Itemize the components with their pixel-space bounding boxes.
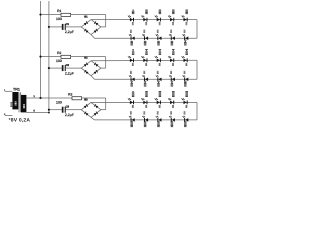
LED5 [182, 10, 188, 26]
pin number 1 of primary [4, 89, 6, 92]
wire TR1 secondary top pin to bus N1 (R3 net) [26, 97, 40, 99]
wire right edge joining LED rows 5 and 6 [196, 102, 198, 120]
LED29 [169, 111, 175, 127]
junction at bus N2 bottom corner [48, 112, 50, 114]
wire right edge joining LED rows 3 and 4 [196, 60, 198, 79]
svg-text:100: 100 [56, 101, 62, 105]
svg-text:R3: R3 [68, 92, 72, 96]
LED10 [183, 30, 189, 46]
resistor R3 [72, 97, 82, 100]
junction on bus N1 at R1 [39, 14, 41, 16]
label R3 [68, 92, 72, 96]
resistor R2 [61, 55, 71, 58]
LED17 [142, 71, 148, 87]
wire bridge B2 + output to LED row 3 [91, 59, 197, 62]
pin number 1 [33, 95, 35, 98]
svg-text:C1: C1 [66, 23, 70, 26]
capacitor C2 [62, 65, 66, 71]
wire vertical bus net N1 (to resistors) [40, 1, 42, 98]
svg-text:R1: R1 [57, 9, 61, 13]
LED2 [141, 10, 147, 26]
label C3 [66, 106, 70, 109]
wire bridge B3 + output to LED row 5 [91, 101, 197, 103]
label B2 [84, 57, 88, 60]
wire to bridge B3 AC right [101, 109, 106, 111]
svg-text:R2: R2 [57, 51, 61, 55]
label 230V on TR1 primary [10, 102, 12, 107]
pin number 4 of primary [4, 113, 6, 116]
wire bus N2 to capacitor C1 [49, 26, 63, 28]
svg-text:B3: B3 [84, 98, 88, 101]
capacitor C1 [62, 24, 66, 30]
LED9 [169, 30, 175, 46]
junction on bus N1 at R3 and TR1 pin [39, 97, 41, 99]
wire to bridge B2 AC right [101, 67, 106, 69]
value 2,2uF of C1 [65, 30, 74, 34]
LED25 [182, 91, 188, 108]
pin stub TR1 primary top [5, 90, 12, 92]
LED8 [156, 30, 162, 46]
wire vertical down to bridge B3 right vertex [105, 98, 107, 110]
junction on bus N1 at R2 [39, 56, 41, 58]
bridge rectifier B3 [81, 102, 101, 117]
LED1 [128, 10, 134, 26]
svg-text:2,2µF: 2,2µF [65, 30, 74, 34]
LED27 [142, 111, 148, 127]
resistor R1 [61, 13, 71, 16]
LED30 [183, 111, 189, 127]
label *8V 0,2A rating [9, 118, 31, 124]
label R2 [57, 51, 61, 55]
pin stub TR1 primary bottom [5, 115, 12, 117]
value 100 of R1 [56, 17, 62, 21]
LED21 [128, 91, 134, 108]
wire resistor R2 to corner [71, 56, 106, 58]
wire to bridge B1 AC right [101, 26, 106, 28]
wire resistor R1 to corner [71, 14, 106, 16]
wire bus N1 to resistor R3 [41, 97, 73, 99]
LED3 [155, 10, 161, 26]
capacitor C3 [62, 107, 66, 113]
LED14 [168, 49, 174, 66]
label R1 [57, 9, 61, 13]
LED24 [168, 91, 174, 108]
label C2 [66, 64, 70, 67]
wire capacitor C3 to bridge B3 AC left [66, 109, 81, 111]
svg-text:C3: C3 [66, 106, 70, 109]
LED22 [141, 91, 147, 108]
LED23 [155, 91, 161, 108]
junction on bus N2 at C2 [48, 67, 50, 69]
svg-text:2,2µF: 2,2µF [65, 71, 74, 75]
wire TR1 secondary bottom pin to bus N2 [26, 112, 49, 114]
wire resistor R3 to corner [82, 97, 106, 99]
junction on bus N2 at C1 [48, 26, 50, 28]
wire capacitor C2 to bridge B2 AC left [66, 67, 81, 69]
svg-text:B2: B2 [84, 57, 88, 60]
transformer TR1 core [19, 92, 20, 112]
wire capacitor C1 to bridge B1 AC left [66, 26, 81, 28]
svg-text:100: 100 [56, 59, 62, 63]
wire vertical bus net N2 (to capacitors) [48, 1, 50, 113]
LED7 [142, 30, 148, 46]
value 100 of R3 [56, 101, 62, 105]
LED20 [183, 71, 189, 87]
transformer TR1 primary winding [12, 92, 18, 109]
svg-text:2,2µF: 2,2µF [65, 113, 74, 117]
value 2,2uF of C2 [65, 71, 74, 75]
wire bridge B1 + output to LED row 1 [91, 19, 197, 21]
LED26 [129, 111, 135, 127]
LED19 [169, 71, 175, 87]
pin number 6 [33, 109, 35, 112]
label 230 inside primary winding [15, 101, 17, 105]
transformer TR1 secondary winding [21, 95, 26, 113]
label B3 [84, 98, 88, 101]
svg-text:C2: C2 [66, 64, 70, 67]
wire bus N1 to resistor R1 [41, 14, 62, 16]
wire bus N2 to capacitor C2 [49, 67, 63, 69]
wire right edge joining LED rows 1 and 2 [196, 20, 198, 39]
wire bus N1 to resistor R2 [41, 56, 62, 58]
svg-text:B1: B1 [84, 16, 88, 19]
LED28 [156, 111, 162, 127]
wire LED row 2 return to bridge B1 - output [91, 35, 197, 39]
label C1 [66, 23, 70, 26]
bridge rectifier B1 [81, 20, 101, 35]
wire LED row 6 return to bridge B3 - output [91, 117, 197, 120]
LED13 [155, 49, 161, 66]
LED11 [128, 49, 134, 66]
wire LED row 4 return to bridge B2 - output [91, 76, 197, 80]
value 2,2uF of C3 [65, 113, 74, 117]
label B1 [84, 16, 88, 19]
svg-text:100: 100 [56, 17, 62, 21]
LED4 [168, 10, 174, 26]
wire bus N2 to capacitor C3 [49, 109, 63, 111]
svg-text:*8V 0,2A: *8V 0,2A [9, 118, 31, 124]
LED12 [141, 49, 147, 66]
wire vertical down to bridge B2 right vertex [105, 57, 107, 69]
LED16 [129, 71, 135, 87]
label TR1 [13, 87, 20, 91]
LED15 [182, 49, 188, 66]
junction on bus N2 at C3 [48, 109, 50, 111]
value 100 of R2 [56, 59, 62, 63]
wire vertical down to bridge B1 right vertex [105, 15, 107, 27]
LED6 [129, 30, 135, 46]
svg-text:TR1: TR1 [13, 87, 20, 91]
bridge rectifier B2 [81, 61, 101, 76]
LED18 [156, 71, 162, 87]
